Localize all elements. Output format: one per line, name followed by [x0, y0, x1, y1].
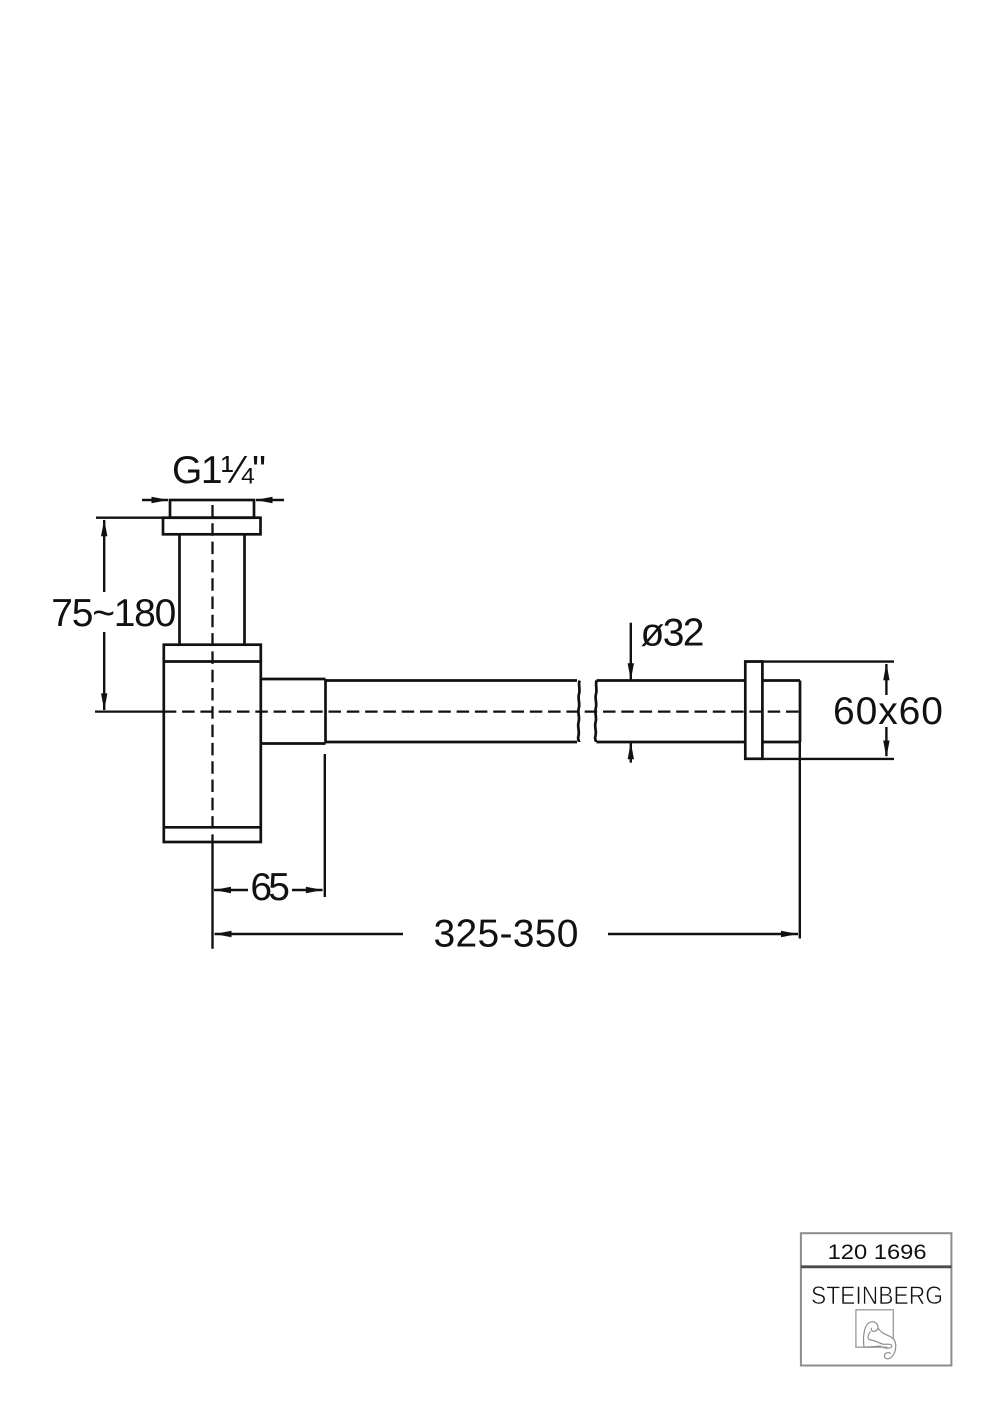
- inlet thread stub: [170, 500, 254, 518]
- swirl neck upper lobe and coil: [878, 1329, 895, 1359]
- svg-text:325-350: 325-350: [434, 913, 579, 956]
- pipe behind wall plate: [762, 681, 800, 743]
- svg-text:120 1696: 120 1696: [828, 1240, 927, 1264]
- inlet flange nut: [163, 518, 261, 535]
- bottle bottom cap line: [164, 826, 261, 829]
- logo swirl: [864, 1322, 896, 1359]
- 60x60 dimension line: [885, 664, 887, 756]
- arrow 65 left pointing left: [214, 887, 231, 893]
- 65 dimension line: [214, 889, 323, 891]
- arrow 325-350 right pointing right: [781, 931, 798, 937]
- arrow G dim right pointing left: [256, 497, 273, 503]
- arrow G dim left pointing right: [152, 497, 169, 503]
- arrow 60x60 bottom pointing down: [883, 741, 889, 758]
- horizontal centerline solid left stub: [95, 710, 164, 712]
- arrow 75~180 top pointing up: [101, 519, 107, 536]
- logo square: [856, 1310, 893, 1347]
- vertical centerline (dashed): [211, 505, 213, 841]
- info box divider: [801, 1265, 952, 1268]
- pipe break squiggle right: [595, 681, 597, 743]
- arrow 325-350 left pointing left: [215, 931, 232, 937]
- swirl white mask lobe: [878, 1329, 895, 1359]
- svg-text:60x60: 60x60: [833, 690, 943, 733]
- info box outer rect: [801, 1233, 952, 1365]
- 325-350 extension line right: [799, 742, 801, 939]
- o32 dimension lines: [630, 623, 632, 763]
- 75~180 extension line top: [96, 517, 163, 519]
- arrow o32 top pointing down: [628, 663, 634, 680]
- swirl inner leg neck and bottom hook: [868, 1332, 892, 1348]
- bottle top cap line: [164, 660, 261, 663]
- arrow 75~180 bottom pointing down: [101, 693, 107, 710]
- pipe break squiggle left: [578, 681, 580, 743]
- outlet coupling nut: [261, 679, 326, 744]
- svg-text:G1¼": G1¼": [172, 449, 266, 492]
- centerlines: [95, 505, 803, 841]
- svg-text:ø32: ø32: [641, 612, 705, 655]
- horizontal pipe segment 1: [326, 681, 578, 743]
- arrow 65 right pointing right: [306, 887, 323, 893]
- bottle trap body: [164, 645, 261, 842]
- arrowheads: [101, 497, 890, 937]
- horizontal centerline (dashed): [164, 710, 803, 712]
- 65 extension line right: [324, 754, 326, 897]
- 325-350 dimension line: [215, 933, 799, 935]
- 75~180 dimension line: [103, 520, 105, 710]
- 60x60 extension lines: [745, 662, 894, 759]
- title block: [801, 1233, 952, 1365]
- svg-text:STEINBERG: STEINBERG: [811, 1282, 943, 1310]
- 65 left extension line (bottle centerline extended): [211, 842, 213, 949]
- swirl head roll: [864, 1322, 881, 1347]
- horizontal pipe segment 2: [597, 681, 746, 743]
- arrow o32 bottom pointing up: [628, 742, 634, 759]
- vertical inlet pipe: [180, 534, 245, 644]
- arrow 60x60 top pointing up: [883, 663, 889, 680]
- swirl white mask head: [864, 1322, 881, 1347]
- wall plate escutcheon: [745, 662, 762, 759]
- pipe end line: [799, 681, 802, 743]
- svg-text:75~180: 75~180: [51, 592, 176, 635]
- dimensions: [96, 500, 894, 949]
- G1 1/4 dimension line: [142, 499, 284, 501]
- dimension texts: [51, 449, 943, 956]
- svg-text:65: 65: [250, 866, 290, 909]
